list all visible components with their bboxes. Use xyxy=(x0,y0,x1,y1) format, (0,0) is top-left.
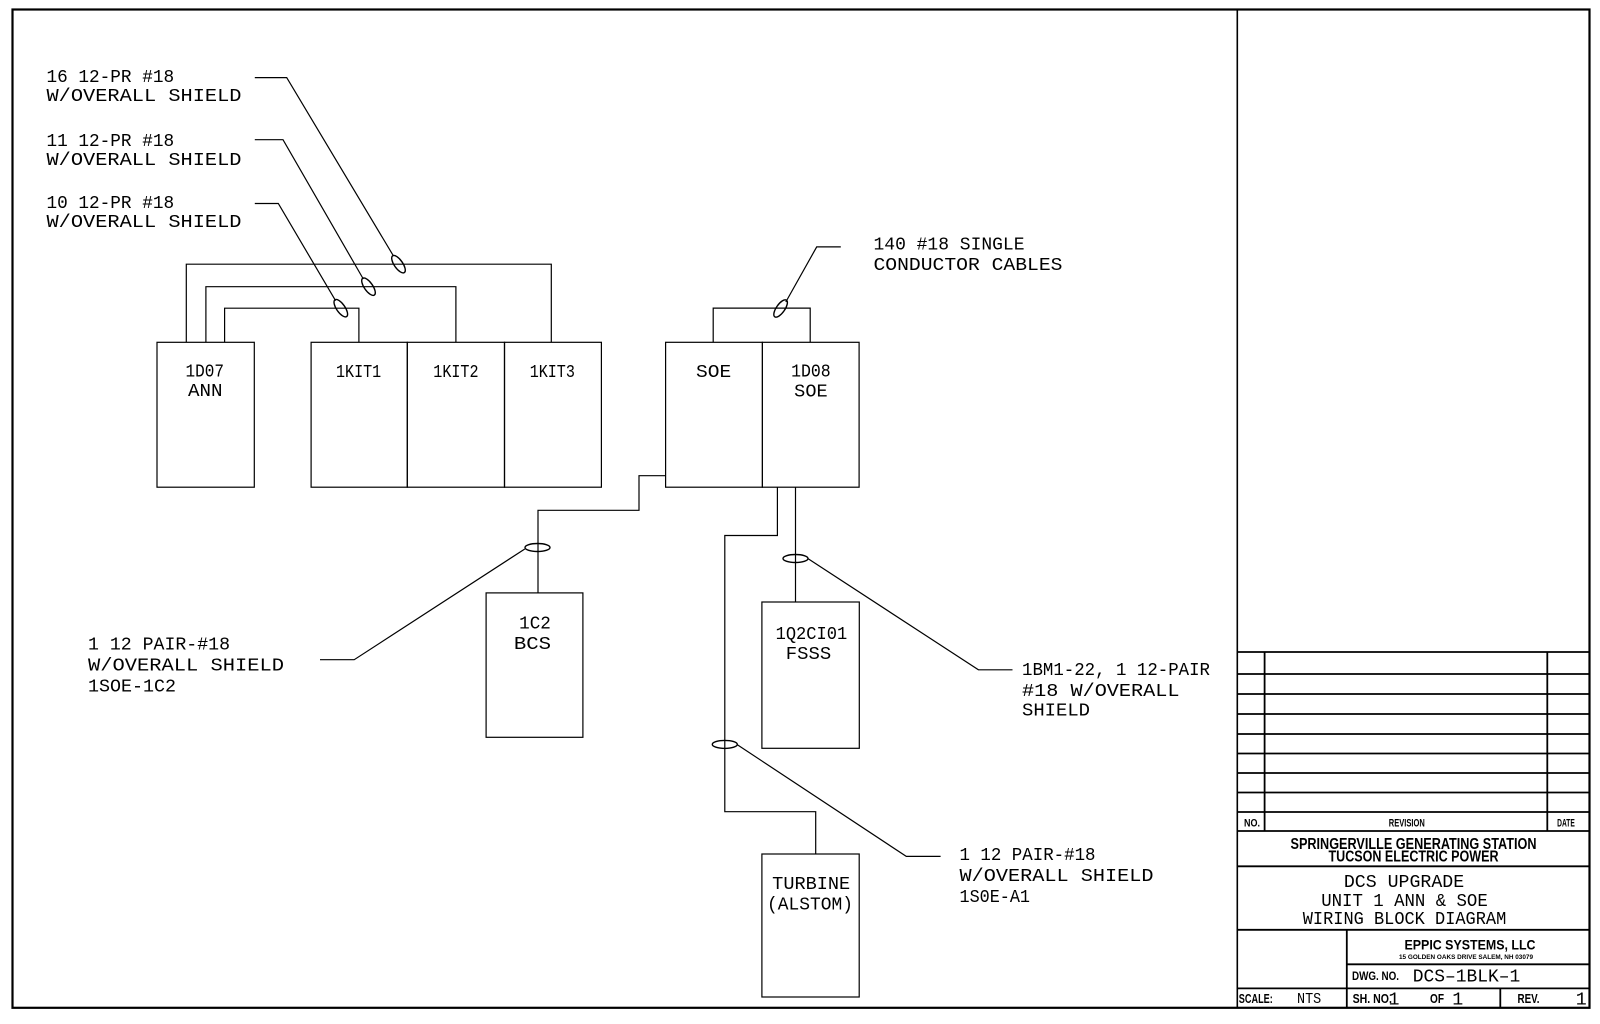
box 1C2 BCS xyxy=(486,593,583,737)
box 1D08 SOE xyxy=(762,342,859,487)
box TURBINE (ALSTOM) xyxy=(762,854,859,997)
svg-text:SH. NO.: SH. NO. xyxy=(1353,991,1392,1006)
wire bridge SOE to 1D08 xyxy=(713,308,810,342)
box 1D07 ANN xyxy=(157,342,254,487)
svg-text:(ALSTOM): (ALSTOM) xyxy=(767,896,853,916)
cable marker ellipse on SOE bridge xyxy=(771,298,790,320)
leader 1SOE-1C2 xyxy=(320,549,525,660)
svg-text:10 12-PR #18: 10 12-PR #18 xyxy=(47,194,175,214)
svg-text:REV.: REV. xyxy=(1518,991,1540,1006)
leader 140 single conductor xyxy=(786,247,841,302)
svg-text:15 GOLDEN OAKS DRIVE SALEM, N: 15 GOLDEN OAKS DRIVE SALEM, NH 03079 xyxy=(1399,954,1533,961)
svg-text:1D08: 1D08 xyxy=(791,363,831,383)
svg-text:1Q2CI01: 1Q2CI01 xyxy=(776,625,848,645)
box 1Q2CI01 FSSS xyxy=(762,602,859,748)
svg-text:W/OVERALL SHIELD: W/OVERALL SHIELD xyxy=(47,213,242,233)
box SOE xyxy=(666,342,763,487)
svg-text:W/OVERALL SHIELD: W/OVERALL SHIELD xyxy=(960,867,1154,887)
leader 10 12-PR xyxy=(255,204,336,301)
svg-text:1KIT3: 1KIT3 xyxy=(530,363,575,383)
wire SOE to 1C2 xyxy=(538,476,666,593)
svg-text:W/OVERALL SHIELD: W/OVERALL SHIELD xyxy=(88,657,284,677)
box 1KIT3 xyxy=(505,342,602,487)
svg-text:REVISION: REVISION xyxy=(1389,818,1425,830)
cable marker ellipse on TURBINE wire xyxy=(712,740,737,748)
svg-text:SOE: SOE xyxy=(794,383,827,403)
svg-text:1 12 PAIR-#18: 1 12 PAIR-#18 xyxy=(88,636,230,656)
label 10 12-PR #18 W/OVERALL SHIELD xyxy=(47,194,242,233)
leader 11 12-PR xyxy=(255,140,363,279)
label 11 12-PR #18 W/OVERALL SHIELD xyxy=(47,132,242,171)
box 1KIT1 xyxy=(311,342,407,487)
svg-text:1: 1 xyxy=(1452,991,1463,1011)
svg-text:TUCSON ELECTRIC POWER: TUCSON ELECTRIC POWER xyxy=(1329,849,1499,866)
leader 1S0E-A1 xyxy=(737,744,941,856)
wire 1D08 to 1Q2CI01 xyxy=(795,487,797,602)
leader 1BM1-22 xyxy=(808,559,1013,670)
svg-text:DCS–1BLK–1: DCS–1BLK–1 xyxy=(1413,968,1521,988)
label 140 #18 SINGLE CONDUCTOR CABLES xyxy=(874,236,1063,277)
label 1 12 PAIR-#18 W/OVERALL SHIELD 1SOE-1C2 xyxy=(88,636,284,698)
svg-text:1S0E-A1: 1S0E-A1 xyxy=(960,888,1031,908)
cable marker ellipse on 1C2 wire xyxy=(525,544,550,552)
svg-text:EPPIC SYSTEMS, LLC: EPPIC SYSTEMS, LLC xyxy=(1405,937,1536,953)
svg-text:1KIT1: 1KIT1 xyxy=(336,363,381,383)
svg-text:NO.: NO. xyxy=(1244,818,1260,830)
box 1KIT2 xyxy=(407,342,504,487)
svg-text:TURBINE: TURBINE xyxy=(772,875,850,895)
svg-text:SHIELD: SHIELD xyxy=(1022,702,1090,722)
svg-text:DATE: DATE xyxy=(1557,818,1575,830)
svg-text:NTS: NTS xyxy=(1297,992,1321,1008)
wire inner bus 1D07 to 1KIT1 xyxy=(225,308,359,342)
svg-text:DWG. NO.: DWG. NO. xyxy=(1352,969,1399,983)
title block row lines xyxy=(1237,866,1589,1008)
cable marker ellipse on middle bus xyxy=(359,276,378,298)
svg-text:140 #18 SINGLE: 140 #18 SINGLE xyxy=(874,236,1025,256)
svg-text:ANN: ANN xyxy=(188,382,223,402)
svg-text:OF: OF xyxy=(1430,991,1444,1006)
label 1BM1-22 1 12-PAIR #18 W/OVERALL SHIELD xyxy=(1022,661,1210,722)
svg-text:W/OVERALL SHIELD: W/OVERALL SHIELD xyxy=(47,151,242,171)
svg-text:CONDUCTOR CABLES: CONDUCTOR CABLES xyxy=(874,256,1063,276)
svg-text:1BM1-22, 1 12-PAIR: 1BM1-22, 1 12-PAIR xyxy=(1022,661,1210,681)
svg-text:DCS UPGRADE: DCS UPGRADE xyxy=(1344,873,1464,893)
svg-text:1: 1 xyxy=(1576,991,1587,1011)
svg-text:WIRING BLOCK DIAGRAM: WIRING BLOCK DIAGRAM xyxy=(1303,910,1507,930)
cable marker ellipse on 1Q2CI01 wire xyxy=(783,555,808,563)
svg-text:FSSS: FSSS xyxy=(786,645,831,665)
wire 1D08 to TURBINE xyxy=(725,487,816,854)
svg-text:1D07: 1D07 xyxy=(186,363,225,383)
svg-text:11 12-PR #18: 11 12-PR #18 xyxy=(47,132,175,152)
cable marker ellipse on inner bus xyxy=(332,297,351,319)
svg-text:BCS: BCS xyxy=(514,635,551,655)
title block divider xyxy=(1236,10,1238,1008)
svg-text:1 12 PAIR-#18: 1 12 PAIR-#18 xyxy=(960,846,1096,866)
svg-text:1KIT2: 1KIT2 xyxy=(433,363,478,383)
wire middle bus 1D07 to 1KIT2 xyxy=(206,287,456,343)
cable marker ellipse on outer bus xyxy=(389,253,408,275)
leader 16 12-PR xyxy=(255,78,394,256)
svg-text:W/OVERALL SHIELD: W/OVERALL SHIELD xyxy=(47,87,242,107)
svg-text:SCALE:: SCALE: xyxy=(1239,991,1273,1006)
svg-text:SOE: SOE xyxy=(696,363,731,383)
svg-text:1C2: 1C2 xyxy=(519,615,551,635)
svg-text:UNIT 1 ANN & SOE: UNIT 1 ANN & SOE xyxy=(1321,892,1488,912)
svg-text:16 12-PR #18: 16 12-PR #18 xyxy=(47,68,175,88)
revision table xyxy=(1237,652,1589,831)
wire outer bus 1D07 to 1KIT3 xyxy=(186,264,551,342)
label 16 12-PR #18 W/OVERALL SHIELD xyxy=(47,68,242,107)
svg-text:1: 1 xyxy=(1389,991,1400,1011)
svg-text:#18 W/OVERALL: #18 W/OVERALL xyxy=(1022,682,1180,702)
label 1 12 PAIR-#18 W/OVERALL SHIELD 1S0E-A1 xyxy=(960,846,1154,908)
svg-text:1SOE-1C2: 1SOE-1C2 xyxy=(88,678,176,698)
